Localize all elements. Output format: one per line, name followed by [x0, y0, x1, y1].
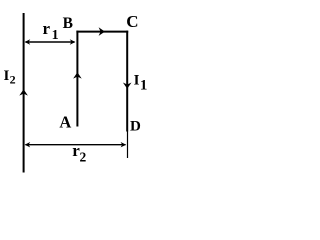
svg-text:2: 2 [80, 149, 87, 164]
svg-text:I: I [4, 68, 10, 84]
svg-text:1: 1 [140, 78, 148, 94]
svg-text:A: A [59, 112, 71, 131]
svg-text:C: C [126, 12, 138, 31]
svg-text:B: B [63, 15, 73, 32]
svg-text:1: 1 [52, 28, 59, 43]
svg-text:r: r [43, 19, 51, 38]
svg-text:2: 2 [10, 72, 16, 86]
svg-text:D: D [130, 118, 141, 134]
svg-text:I: I [134, 73, 140, 89]
